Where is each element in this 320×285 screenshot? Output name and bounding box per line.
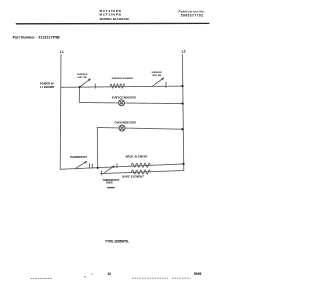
svg-text:10: 10 bbox=[107, 272, 111, 276]
svg-text:UNIT SW: UNIT SW bbox=[152, 75, 162, 77]
switch SW1 contact bbox=[94, 84, 96, 88]
svg-text:THERMOSTAT: THERMOSTAT bbox=[70, 156, 87, 159]
switch SW1 lever bbox=[80, 79, 91, 87]
svg-text:L2: L2 bbox=[182, 49, 186, 53]
arrowhead sw1 bbox=[88, 79, 90, 81]
header rule bbox=[16, 22, 209, 24]
switch selector contacts bbox=[101, 171, 103, 175]
label small mark below selector bbox=[107, 187, 115, 188]
wire oven indicator row bbox=[97, 128, 182, 130]
lamp oven indicator bbox=[119, 125, 125, 131]
switch selector lever bbox=[105, 166, 115, 173]
node row A / L2 bbox=[182, 163, 184, 165]
svg-text:SURFACE: SURFACE bbox=[77, 73, 88, 76]
svg-text:BAKE ELEMENT: BAKE ELEMENT bbox=[122, 175, 144, 178]
svg-text:POWER IN: POWER IN bbox=[40, 82, 54, 86]
svg-text:SURFACE: SURFACE bbox=[152, 71, 163, 74]
svg-text:5995: 5995 bbox=[194, 272, 202, 276]
node sw1 pivot bbox=[78, 86, 80, 88]
svg-text:WIRING DIAGRAM: WIRING DIAGRAM bbox=[100, 17, 130, 21]
resistor surface element bbox=[110, 84, 124, 88]
wire indicator branch bbox=[79, 87, 182, 104]
lamp surface indicator bbox=[119, 100, 125, 106]
svg-text:SURFACE ELEMENT: SURFACE ELEMENT bbox=[112, 77, 134, 80]
footer specks bbox=[84, 276, 86, 278]
resistor broil element bbox=[132, 163, 151, 167]
node oven row / L2 bbox=[181, 128, 183, 130]
switch thermostat lever bbox=[75, 161, 87, 168]
switch SW2 contact bbox=[165, 82, 167, 87]
footer dashes right 1 bbox=[132, 277, 168, 279]
footer dashes left bbox=[30, 277, 52, 279]
svg-text:TYPE 26958P5L: TYPE 26958P5L bbox=[105, 239, 129, 243]
svg-text:SURFACE INDICATOR: SURFACE INDICATOR bbox=[112, 96, 137, 99]
resistor bake element bbox=[132, 170, 151, 174]
svg-text:BAKE: BAKE bbox=[106, 182, 113, 185]
svg-text:5995377702: 5995377702 bbox=[181, 14, 204, 18]
svg-text:MCT306PB: MCT306PB bbox=[100, 12, 122, 16]
switch thermostat contacts bbox=[89, 164, 91, 169]
svg-text:L1: L1 bbox=[60, 50, 64, 54]
switch SW2 lever bbox=[153, 78, 164, 86]
arrowhead thermostat bbox=[84, 161, 86, 164]
wire L2 bus bbox=[101, 55, 184, 174]
footer dashes right 2 bbox=[172, 277, 191, 279]
arrowhead sw2 bbox=[161, 78, 163, 80]
svg-text:BROIL ELEMENT: BROIL ELEMENT bbox=[126, 155, 148, 158]
node indicator row / L2 bbox=[181, 102, 183, 104]
wire top row bbox=[61, 86, 182, 87]
wire L1 bus bbox=[60, 55, 183, 170]
svg-text:L1 BROWN: L1 BROWN bbox=[40, 85, 54, 89]
svg-text:OVEN INDICATOR: OVEN INDICATOR bbox=[115, 121, 137, 124]
arrowhead selector bbox=[112, 166, 114, 169]
svg-text:Part Number - 9119217P5B: Part Number - 9119217P5B bbox=[13, 35, 61, 39]
svg-text:UNIT SW: UNIT SW bbox=[78, 77, 88, 79]
node top row / L2 bbox=[181, 85, 183, 87]
node oven branch / row A bbox=[97, 167, 99, 169]
wire oven branch vertical bbox=[96, 128, 98, 168]
